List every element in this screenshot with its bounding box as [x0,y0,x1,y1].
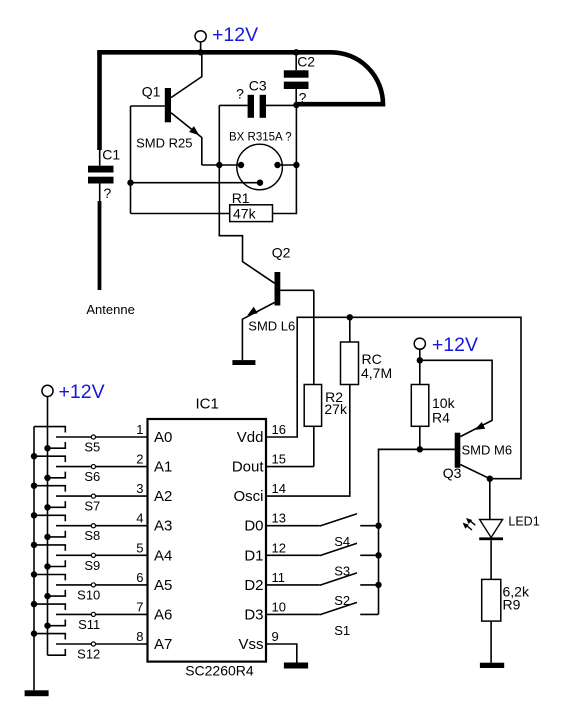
resistor R9 [482,579,501,621]
node junction top rail at Q1 collector [197,49,203,55]
node junctions right bus [375,523,381,589]
svg-text:Osci: Osci [234,488,264,505]
svg-text:Antenne: Antenne [86,302,134,317]
svg-text:4,7M: 4,7M [361,365,392,381]
svg-text:13: 13 [272,511,286,526]
wire R1 left lead [131,213,230,215]
wire R4 bottom [419,426,421,449]
wire thick antenna rail with arc [100,52,384,150]
node junction on emitter line [216,162,222,168]
wire Vdd net [266,317,521,478]
svg-text:C3: C3 [249,78,267,94]
svg-text:A4: A4 [154,547,172,564]
resistor RC [341,342,359,385]
switch S11 arms [34,604,65,626]
svg-text:S10: S10 [77,587,100,602]
node junction Q1 base / R1 / resonator bottom [127,180,133,186]
node junction RC top [347,314,353,320]
IC pin names right [232,429,265,653]
svg-text:14: 14 [272,481,286,496]
switch S1 blade [320,602,379,614]
svg-text:S8: S8 [84,528,100,543]
transistor Q3 [379,433,490,479]
svg-text:SMD R25: SMD R25 [136,136,192,151]
capacitor C2 [284,52,309,104]
switch S8 arms [34,515,65,537]
svg-text:?: ? [299,90,307,106]
switch S9 arms [34,545,65,567]
svg-text:R4: R4 [432,410,450,426]
svg-text:Vss: Vss [238,636,263,653]
svg-text:SMD M6: SMD M6 [462,443,513,458]
resistor R4 [411,385,429,427]
wire to LED [489,479,491,520]
node junction R4 bottom on base line [417,446,423,452]
svg-text:S4: S4 [334,534,350,549]
transistor Q1 [131,55,202,166]
wire Dout lead [266,466,314,468]
svg-text:C1: C1 [102,147,120,163]
svg-text:S6: S6 [84,469,100,484]
node junction right supply [417,357,423,363]
wire R2 to Dout [313,426,315,466]
node junctions center bus [44,445,50,629]
node junction Q3 collector [487,476,493,482]
svg-text:+12V: +12V [59,381,105,403]
svg-text:6: 6 [136,570,143,585]
svg-text:S9: S9 [84,558,100,573]
svg-text:Q1: Q1 [142,84,161,100]
emitter arrow Q3 [475,422,486,430]
svg-text:4: 4 [136,511,143,526]
node junction resonator right [293,162,299,168]
wire to R4 [419,360,421,384]
svg-text:+12V: +12V [432,334,478,356]
svg-text:?: ? [236,86,244,102]
wire Q2 base to R2 [313,290,315,384]
resonator BX R315A [237,144,283,190]
svg-text:SC2260R4: SC2260R4 [185,663,254,679]
svg-text:BX R315A ?: BX R315A ? [229,132,292,144]
ground Vss [284,663,308,669]
pin numbers right [272,422,286,644]
svg-text:+12V: +12V [212,24,258,46]
supply terminal +12V left [42,385,53,396]
switch S4 blade [320,514,379,526]
wire to resonator bottom pin [131,182,261,184]
svg-text:D2: D2 [244,577,263,594]
switch S7 arms [34,486,65,508]
node junction C2 bottom [293,102,299,108]
svg-text:Vdd: Vdd [237,429,264,446]
supply terminal +12V top [195,31,206,42]
transistor Q2 [242,272,313,360]
svg-text:Q3: Q3 [443,465,462,481]
svg-text:D0: D0 [244,518,263,535]
right pin wires D0-D3 [266,526,320,615]
svg-text:7: 7 [136,599,143,614]
svg-text:3: 3 [136,481,143,496]
wire Q1 emitter to resonator left pin [202,164,241,166]
svg-text:15: 15 [272,452,286,467]
svg-text:S7: S7 [84,499,100,514]
switch S10 arms [34,575,65,597]
svg-text:R1: R1 [232,190,250,206]
svg-text:D3: D3 [244,606,263,623]
svg-text:S1: S1 [334,623,350,638]
svg-text:11: 11 [272,570,286,585]
svg-text:S3: S3 [334,564,350,579]
svg-text:A3: A3 [154,518,172,535]
svg-text:1: 1 [136,422,143,437]
svg-text:S2: S2 [334,593,350,608]
svg-text:SMD L6: SMD L6 [248,319,295,334]
wire resonator right pin [278,164,297,166]
svg-text:Dout: Dout [232,459,265,476]
LED LED1 [463,518,503,540]
pin numbers left [136,422,143,644]
svg-text:IC1: IC1 [196,396,219,413]
resistor R2 [304,385,321,427]
IC pin names left [154,429,172,653]
switch S6 arms [34,456,65,478]
ground R9 [480,663,504,668]
svg-text:A2: A2 [154,488,172,505]
svg-text:S11: S11 [78,617,100,632]
wire left bus to ground [33,427,35,691]
wire right bus [379,449,455,614]
svg-text:LED1: LED1 [508,515,539,529]
switch S5 arms [34,427,65,449]
wire [200,42,202,52]
left pin wires A0-A7 with switch contacts S5-S12 [56,437,148,644]
node junction top rail at C2 [293,49,299,55]
resistor R1 [230,205,273,222]
svg-text:C2: C2 [297,54,315,70]
svg-text:S12: S12 [77,647,100,662]
svg-text:Q2: Q2 [272,245,291,261]
switch S2 blade [320,573,379,585]
svg-text:9: 9 [272,629,279,644]
ground Q2 emitter [232,360,255,365]
svg-text:A7: A7 [154,636,172,653]
wire RC bottom to Osci [266,385,350,497]
switch S3 blade [320,543,379,555]
wire LED to R9 [490,540,492,579]
wire Q3 emitter branch [420,360,492,436]
wire C3-left riser down to Q2 collector [219,105,274,283]
wire RC top lead [349,317,351,342]
wire Vss to ground [266,644,297,663]
svg-text:2: 2 [136,452,143,467]
wire center bus from +12V [47,397,49,656]
svg-text:?: ? [104,185,112,201]
switch S12 arms [34,634,65,656]
labels S4-S1 [334,534,350,638]
svg-text:47k: 47k [233,206,257,222]
svg-text:10: 10 [272,599,286,614]
svg-text:R9: R9 [503,597,521,613]
supply terminal +12V right [414,338,425,349]
svg-text:8: 8 [136,629,143,644]
wire Q1 base riser [130,106,132,214]
svg-text:A5: A5 [154,577,172,594]
wire R9 to ground [490,621,492,663]
svg-text:S5: S5 [84,440,100,455]
svg-text:12: 12 [272,540,286,555]
svg-text:A0: A0 [154,429,172,446]
svg-text:16: 16 [272,422,286,437]
switch contact circles [91,435,95,646]
ground left bus [25,690,49,696]
svg-text:D1: D1 [244,547,263,564]
svg-text:27k: 27k [324,401,348,417]
wire riser C2-bottom to R1 right [273,105,297,214]
svg-text:A6: A6 [154,606,172,623]
labels S5-S12 [77,440,100,662]
capacitor C1 [88,149,114,201]
capacitor C3 [219,95,296,118]
svg-text:A1: A1 [154,459,172,476]
wire thick antenna lead [98,201,102,290]
node junctions left bus [31,453,37,637]
wire [419,349,421,360]
svg-text:5: 5 [136,540,143,555]
IC IC1 box [148,419,267,662]
